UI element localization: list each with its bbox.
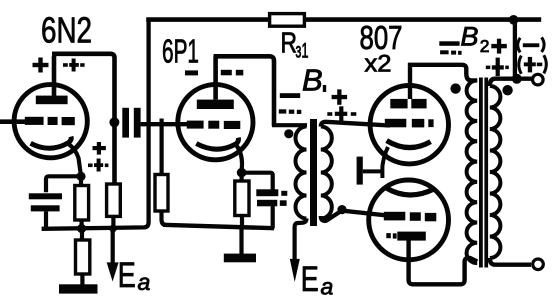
tube 807-1 anode bars xyxy=(390,99,407,109)
tube 6P1 anode xyxy=(197,100,234,109)
node output secondary dot xyxy=(502,85,512,95)
label (+-) xyxy=(519,56,522,74)
arrow Ea right xyxy=(290,259,300,282)
wire to B1 primary top xyxy=(272,123,307,127)
wire top B+ rail xyxy=(146,17,541,22)
transformer output secondary winding xyxy=(490,86,501,258)
node rail junction left xyxy=(77,224,86,233)
transformer output primary winding xyxy=(467,80,478,263)
wire 6P1 cathode lead xyxy=(237,146,242,173)
tube 6P1 grid dashes xyxy=(187,121,241,129)
wire B1 primary bottom to Ea xyxy=(295,219,307,266)
node coupling cap junction xyxy=(109,117,119,127)
ground right xyxy=(239,228,243,255)
node 6N2 cathode junction xyxy=(76,172,85,181)
wire right bottom rail xyxy=(163,225,274,228)
node B1 primary dot xyxy=(284,129,293,138)
resistor R cathode 6P1 xyxy=(240,177,244,181)
node 6P1 cathode junction xyxy=(237,168,247,178)
svg-text:E: E xyxy=(118,256,136,295)
wire cap to rail xyxy=(271,206,275,229)
wire 6P1 anode loop xyxy=(214,56,275,126)
ground bar cathode xyxy=(357,157,363,185)
node B1 secondary dot xyxy=(337,205,346,214)
capacitor C1 plates xyxy=(29,193,62,199)
node rail junction anode-load xyxy=(109,225,117,233)
resistor R anode-load 6N2 xyxy=(107,184,121,216)
svg-text:6P1: 6P1 xyxy=(162,34,199,71)
capacitor coupling plates xyxy=(122,108,129,138)
wire 6N2 grid input lead xyxy=(0,119,30,124)
svg-text:В: В xyxy=(302,63,323,98)
ground left xyxy=(59,284,98,293)
marks dashes above 6P1 xyxy=(185,70,243,76)
marks dashes near B1 xyxy=(279,89,357,121)
wire 807-1 anode loop xyxy=(408,63,477,99)
wire C1 to rail xyxy=(44,211,48,227)
terminal bottom ring xyxy=(533,259,544,270)
node output primary dot xyxy=(450,83,460,93)
capacitor bypass 6P1 plates xyxy=(256,189,287,206)
tube 6N2 grid dashes xyxy=(25,117,75,125)
transformer B1 secondary winding xyxy=(321,127,332,219)
arrow Ea left xyxy=(111,229,115,263)
tube 807-2 envelope xyxy=(369,180,449,260)
svg-text:a: a xyxy=(321,273,334,299)
label (-) xyxy=(518,38,521,53)
svg-text:В: В xyxy=(461,22,479,52)
resistor R cathode 6N2 xyxy=(79,176,83,186)
wire cathode junction to cap branch xyxy=(242,173,273,191)
wire B+ drop to (-) terminal xyxy=(513,20,517,78)
tube 6N2 cathode arc xyxy=(31,137,72,149)
tube 6P1 cathode arc xyxy=(196,138,238,150)
terminal top ring xyxy=(533,74,544,85)
wire 807-1 cathode lead xyxy=(382,147,388,166)
tube 807-2 anode bar xyxy=(397,232,426,241)
wire 807-2 anode loop to transformer bottom xyxy=(409,240,478,284)
node secondary-top junction xyxy=(512,74,522,84)
wire B1 secondary bottom to 807 grid 2 xyxy=(321,211,390,221)
wire left bottom rail xyxy=(42,20,149,229)
resistor Rэ1 xyxy=(270,14,305,27)
resistor R grid-leak 6P1 xyxy=(160,119,164,176)
tube 807-1 grid dashes xyxy=(385,119,434,128)
wire 6N2 cathode lead xyxy=(69,144,82,176)
capacitor marks + above 6N2 xyxy=(33,58,85,73)
tube 6N2 envelope xyxy=(14,85,87,158)
svg-text:E: E xyxy=(301,260,319,299)
svg-text:6N2: 6N2 xyxy=(41,10,92,51)
marks dashes near B2 xyxy=(439,39,509,76)
svg-text:x2: x2 xyxy=(365,51,392,78)
transformer B1 core xyxy=(310,119,317,226)
svg-text:2: 2 xyxy=(480,36,490,56)
tube 6N2 anode xyxy=(36,96,68,105)
svg-text:з1: з1 xyxy=(296,40,309,63)
tube 807-2 grid dashes xyxy=(384,212,437,221)
wire secondary bottom to terminal xyxy=(490,258,531,265)
wire 6N2 anode loop xyxy=(52,54,115,185)
tube 807-1 cathode arc xyxy=(387,141,431,148)
wire B1 secondary top to 807 grid xyxy=(321,122,390,127)
node top-right junction xyxy=(509,15,519,25)
resistor R to ground 6N2 xyxy=(80,229,84,240)
tube 807-2 cathode arc xyxy=(386,188,434,195)
svg-text:a: a xyxy=(138,269,151,295)
transformer B1 primary winding xyxy=(296,127,307,219)
tube 807-1 envelope xyxy=(370,86,448,164)
wire cathode to bypass cap C1 xyxy=(46,176,81,192)
transformer output core xyxy=(479,78,483,268)
wire cathode bus xyxy=(363,169,383,173)
wire cap to 6P1 grid xyxy=(141,122,196,126)
tube 6P1 envelope xyxy=(178,85,253,160)
wire secondary top to terminal xyxy=(490,79,532,86)
capacitor marks + near 6N2 cathode xyxy=(88,142,108,172)
